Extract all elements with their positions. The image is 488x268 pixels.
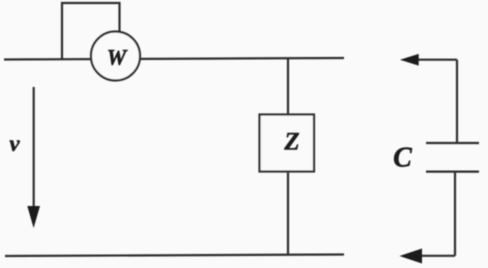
wire: bottom bus <box>5 255 344 257</box>
voltage arrow v <box>27 87 40 228</box>
svg-text:W: W <box>107 45 128 70</box>
wire: top bus <box>4 58 344 60</box>
arrow: capacitor C top lead <box>400 54 457 143</box>
wire: Z top branch <box>287 58 289 114</box>
wire: Z bottom branch <box>287 172 289 256</box>
wattmeter W1 current-coil loop <box>62 3 120 59</box>
impedance Z box <box>260 115 315 172</box>
svg-text:Z: Z <box>283 129 299 156</box>
capacitor C plates <box>426 143 479 172</box>
arrow: capacitor C bottom lead <box>400 172 456 264</box>
svg-text:C: C <box>393 143 412 174</box>
svg-text:v: v <box>9 131 20 156</box>
wattmeter U1 body <box>91 32 140 81</box>
